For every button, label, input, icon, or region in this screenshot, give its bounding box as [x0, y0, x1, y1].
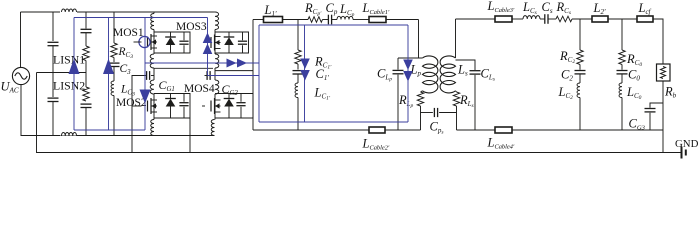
- noise path v3 gate line: [144, 18, 146, 131]
- capacitor C_3: [109, 62, 120, 64]
- svg-text:MOS4: MOS4: [184, 83, 215, 95]
- wire tank top 3: [323, 19, 329, 21]
- inductor L_C3: [111, 81, 114, 96]
- inductor left leg parasitic bottom: [151, 120, 154, 136]
- capacitor LISN2 port C: [81, 103, 92, 105]
- wire branch C0 link: [621, 65, 623, 70]
- wire out top 7: [653, 19, 663, 65]
- transistor MOS1: [147, 37, 149, 48]
- capacitor LISN2 C: [48, 97, 59, 99]
- inductor L_C2: [577, 83, 580, 98]
- svg-text:MOS2: MOS2: [116, 97, 147, 109]
- wire secondary feed: [455, 19, 457, 58]
- inductor L_Cable2': [369, 127, 385, 133]
- resistor R_C1': [295, 50, 301, 64]
- inductor right leg mid-lower: [215, 80, 219, 94]
- wire out top 5: [572, 18, 592, 20]
- wire Cps link2: [439, 112, 456, 114]
- wire LISN1 port link: [85, 33, 87, 46]
- capacitor C_1': [293, 70, 304, 72]
- wire C3-LC3 link: [113, 67, 115, 81]
- wire right leg upper: [214, 30, 216, 55]
- wire left leg lower: [153, 94, 155, 120]
- wire branch1 bottom: [297, 98, 299, 131]
- inductor L_cf: [637, 16, 653, 22]
- inductor L_Cp: [337, 16, 353, 19]
- inductor L_2': [592, 16, 608, 22]
- capacitor C_G2: [211, 75, 215, 77]
- noise path mid bottom rail: [259, 121, 408, 123]
- wire branch C0 link2: [621, 74, 623, 83]
- wire MOS3 box: [215, 32, 249, 53]
- resistor R_C3: [111, 43, 117, 58]
- wire LISN branch C lower: [52, 102, 54, 136]
- capacitor MOS3 snubber: [242, 32, 244, 40]
- resistor R_Lp: [417, 92, 423, 106]
- wire left edge upper: [20, 12, 22, 68]
- capacitor C_ps: [433, 108, 435, 117]
- capacitor C_p: [327, 15, 329, 25]
- svg-text:LISN1: LISN1: [53, 53, 85, 67]
- noise arrow v7 down double: [403, 60, 413, 71]
- wire primary lower: [421, 91, 423, 92]
- noise path v4 bridge: [207, 18, 209, 76]
- noise arrow mid right double: [227, 59, 237, 68]
- wire LC3 lower: [113, 96, 115, 136]
- wire tank top 1: [253, 19, 264, 21]
- inductor L_Cable3': [495, 16, 512, 22]
- svg-text:MOS1: MOS1: [113, 27, 144, 39]
- wire out top 1: [456, 18, 496, 20]
- wire primary feed: [418, 20, 420, 59]
- wire branch C0 top: [621, 19, 623, 50]
- wire secondary lower: [456, 91, 457, 92]
- noise arrow v3 down: [140, 90, 151, 104]
- wire out bottom rail: [457, 129, 664, 131]
- wire bottom bus: [21, 135, 215, 137]
- wire secondary to rail: [456, 106, 458, 130]
- wire branch1 link: [297, 64, 299, 70]
- resistor R_C2: [577, 50, 583, 65]
- resistor R_Ls: [453, 92, 459, 106]
- wire branch C2 link2: [579, 74, 581, 83]
- wire branch C2 link: [579, 65, 581, 70]
- diode MOS2 body: [170, 94, 172, 99]
- inductor L_Cable4': [495, 127, 512, 133]
- wire out top 6: [608, 18, 637, 20]
- wire right leg middle: [214, 68, 216, 80]
- wire chassis drop: [189, 118, 191, 153]
- capacitor MOS2 snubber: [183, 94, 185, 102]
- wire load bottom: [662, 81, 664, 153]
- svg-text:GND: GND: [675, 138, 699, 150]
- wire LISN2 port lower: [85, 108, 87, 136]
- transistor MOS4: [210, 101, 212, 112]
- wire LISN branch C mid: [52, 46, 54, 97]
- wire MOS4 gate lead: [202, 105, 205, 107]
- svg-text:LISN2: LISN2: [53, 79, 85, 93]
- resistor R_C0: [619, 50, 625, 65]
- svg-text:MOS3: MOS3: [176, 21, 207, 33]
- wire MOS1 box: [154, 32, 190, 53]
- wire out top 2: [512, 18, 523, 20]
- noise arrow v2 up: [103, 59, 114, 75]
- inductor right leg parasitic top: [215, 12, 219, 30]
- noise path v6: [304, 25, 306, 122]
- noise path mid top rail: [259, 24, 408, 26]
- capacitor LISN1 port C: [81, 28, 92, 30]
- inductor right leg parasitic bottom: [211, 120, 214, 136]
- inductor LISN top choke: [60, 6, 77, 13]
- wire bridge mid right: [215, 70, 253, 72]
- ground GND symbol: [681, 147, 683, 159]
- wire left edge lower: [20, 85, 22, 136]
- inductor LISN bottom choke: [60, 130, 77, 136]
- noise path v7: [407, 25, 409, 122]
- diode MOS4 body: [228, 94, 230, 99]
- wire branch C2 top: [579, 19, 581, 50]
- wire right leg top corner: [214, 11, 216, 13]
- wire LISN ground rail: [37, 72, 87, 74]
- wire top bus: [21, 11, 214, 13]
- inductor L_C1': [295, 83, 298, 98]
- wire branch C0 bottom: [621, 98, 623, 131]
- wire right leg lower: [214, 94, 216, 120]
- diode MOS1 body: [170, 32, 172, 37]
- noise path v1: [73, 18, 75, 131]
- inductor L_Cs: [523, 16, 540, 19]
- wire tank top 4: [332, 19, 337, 21]
- transistor MOS3: [210, 37, 212, 48]
- transistor MOS2: [147, 101, 149, 112]
- resistor R_b load: [657, 64, 671, 81]
- wire RC3-C3 link: [113, 58, 115, 63]
- probe circle MOS1 gate: [139, 36, 150, 47]
- wire branch1 link2: [297, 74, 299, 83]
- noise path v2: [108, 18, 110, 131]
- capacitor C_s: [544, 14, 546, 24]
- wire tank bottom rail: [253, 129, 421, 131]
- noise path v5: [258, 25, 260, 122]
- wire MOS4 box: [215, 94, 253, 119]
- wire Cps link: [421, 112, 433, 114]
- capacitor LISN1 C: [48, 41, 59, 43]
- capacitor C_2: [575, 70, 586, 72]
- capacitor C_Lp: [397, 58, 399, 70]
- source U_AC: [12, 67, 29, 84]
- inductor left leg mid-lower: [150, 80, 154, 94]
- wire bridge mid left: [154, 67, 213, 69]
- wire MOS2 gate lead: [132, 105, 142, 107]
- resistor LISN1 R: [83, 46, 89, 61]
- wire branch RC3 upper: [113, 12, 115, 43]
- inductor L_Cable1': [369, 17, 386, 23]
- inductor L_s winding: [440, 56, 455, 93]
- wire LISN mid link: [85, 61, 87, 88]
- noise arrow v6 down double: [300, 59, 310, 70]
- wire earth: [37, 152, 682, 154]
- inductor right leg mid-upper: [215, 54, 219, 68]
- noise path gate return: [208, 75, 260, 77]
- capacitor MOS4 snubber: [240, 94, 242, 102]
- wire LISN branch C upper: [52, 12, 54, 41]
- wire earth drop: [36, 73, 38, 154]
- resistor R_Cs: [556, 16, 572, 22]
- inductor left leg parasitic top: [151, 14, 154, 30]
- diode MOS3 body: [228, 32, 230, 37]
- wire left leg middle: [153, 68, 155, 80]
- noise path mid horizontal: [145, 62, 259, 64]
- resistor LISN2 R: [83, 87, 89, 101]
- noise path bottom rail left: [74, 129, 145, 131]
- capacitor C_0: [617, 70, 628, 72]
- wire branch1 top: [297, 20, 299, 51]
- wire out top 4: [548, 18, 556, 20]
- wire out top 3: [540, 18, 544, 20]
- wire primary to Cps: [420, 106, 422, 130]
- wire bridge output vertical: [252, 20, 254, 131]
- inductor L_p winding: [423, 56, 438, 93]
- noise path top rail: [74, 17, 208, 19]
- wire MOS1 gate stub: [134, 41, 142, 43]
- wire tank top 2: [283, 19, 309, 21]
- capacitor C_O3: [650, 103, 663, 108]
- inductor L_1': [264, 17, 283, 23]
- wire tank top 6: [386, 19, 419, 21]
- wire primary top node: [398, 57, 423, 59]
- wire left leg top: [153, 12, 155, 14]
- wire tank top 5: [353, 19, 369, 21]
- inductor L_C0: [619, 83, 622, 98]
- resistor R_Cp': [308, 17, 323, 23]
- wire MOS2 box: [154, 94, 190, 119]
- wire LISN branch RC upper: [85, 12, 87, 29]
- capacitor C_G1: [151, 75, 154, 77]
- wire branch C2 bottom: [579, 98, 581, 131]
- wire left leg upper: [153, 30, 155, 55]
- capacitor C_Ls: [456, 60, 476, 70]
- inductor left leg mid-upper: [150, 54, 154, 68]
- noise arrow v1 up: [69, 59, 80, 75]
- wire MOS3 gate stub: [207, 42, 209, 44]
- noise arrow v4 up double: [203, 33, 213, 44]
- capacitor MOS1 snubber: [183, 32, 185, 40]
